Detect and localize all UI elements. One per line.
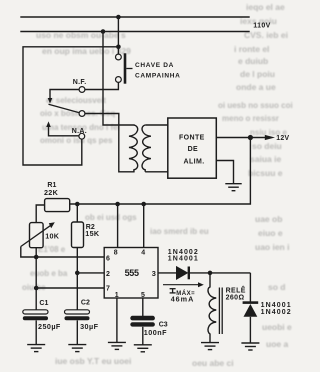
svg-text:so deiu: so deiu [252, 141, 282, 151]
svg-text:110V: 110V [253, 23, 271, 30]
resistor R1 body [45, 199, 70, 212]
transformer T1 primary coil [129, 125, 138, 172]
wire R1 left to potentiometer [36, 205, 44, 223]
junction dot pin2 node [75, 271, 80, 276]
label I MAX = 46mA [170, 289, 176, 293]
svg-text:meno o resissr: meno o resissr [222, 114, 279, 123]
ground symbol pin1 [108, 342, 126, 349]
wire pin3 to diode D1 [158, 272, 176, 274]
svg-text:260Ω: 260Ω [226, 295, 245, 302]
wire pin8 stub [117, 204, 119, 248]
arrow 12V output [250, 137, 266, 139]
svg-text:1N4001: 1N4001 [168, 255, 199, 262]
svg-text:C1: C1 [39, 300, 48, 307]
wire C3 to ground [142, 327, 144, 345]
ground symbol FONTE [225, 184, 241, 191]
wire line1 drop to bell switch [117, 17, 119, 54]
svg-text:de l poiu: de l poiu [240, 69, 275, 79]
wire R2 bottom to C2 [76, 248, 78, 311]
diode D2 triangle [244, 304, 258, 317]
relay core bars [218, 288, 220, 335]
svg-text:12V: 12V [276, 135, 289, 142]
svg-text:15K: 15K [85, 229, 100, 238]
wire R2 top stub [76, 204, 78, 222]
svg-text:uao ien i: uao ien i [255, 242, 289, 252]
junction dot 12V node [248, 135, 253, 140]
wire relay node to D2 [249, 273, 251, 302]
switch arm (relay contact) [49, 104, 80, 113]
capacitor C3 plates [130, 316, 155, 321]
svg-text:DE: DE [188, 146, 199, 153]
svg-text:CHAVE DA: CHAVE DA [135, 62, 174, 69]
ground symbol C3 [134, 345, 152, 352]
wire 110V line 3 (to N.A. contact) [23, 47, 118, 165]
junction dot line3 [116, 45, 121, 50]
wire pot bottom stub [35, 248, 37, 257]
wire pin7 line [36, 287, 104, 289]
wire 110V line 2 [21, 31, 249, 33]
wire pot wiper to pin6 rail [21, 247, 104, 258]
svg-text:3: 3 [152, 269, 156, 278]
FONTE DE ALIM box [168, 118, 217, 178]
svg-text:555: 555 [125, 268, 139, 278]
svg-text:1N4001: 1N4001 [261, 302, 292, 309]
svg-text:2: 2 [106, 271, 110, 278]
svg-text:8: 8 [114, 249, 118, 256]
svg-text:e duiub: e duiub [238, 56, 268, 66]
svg-text:30µF: 30µF [80, 322, 98, 331]
ground symbol D2 [241, 343, 259, 350]
svg-text:ALIM.: ALIM. [184, 159, 205, 166]
svg-text:oeu abe ci: oeu abe ci [192, 358, 234, 368]
wire pin4 stub [143, 204, 145, 248]
svg-text:so d: so d [268, 282, 285, 292]
svg-text:RELÊ: RELÊ [226, 286, 246, 295]
wire N.F. contact left stub [50, 90, 79, 99]
resistor R2 body [72, 222, 84, 248]
svg-text:22K: 22K [44, 188, 59, 197]
wire FONTE to ground [216, 161, 233, 184]
junction dot rail R2 [75, 202, 80, 207]
ground symbol C1 [27, 345, 45, 352]
svg-text:1N4002: 1N4002 [261, 309, 292, 316]
junction dot line1 [116, 15, 121, 20]
svg-text:ueobi e: ueobi e [262, 322, 292, 332]
wire pin1 to ground [116, 298, 118, 342]
contact circle N.F. [79, 87, 85, 93]
svg-text:er seleciousveit: er seleciousveit [46, 96, 106, 105]
svg-text:C2: C2 [81, 300, 90, 307]
wire N.A. stub [49, 126, 79, 136]
svg-text:6: 6 [106, 255, 110, 262]
diode D1 cathode bar [188, 267, 190, 280]
svg-text:i ronte el: i ronte el [234, 44, 269, 54]
svg-text:5: 5 [141, 292, 145, 299]
svg-text:oi uesb no ssuo coi: oi uesb no ssuo coi [218, 101, 293, 110]
potentiometer P1 body [30, 223, 44, 248]
contact circle common [79, 111, 85, 117]
ground symbol C2 [68, 345, 86, 352]
pushbutton chave da campainha: circles [116, 54, 122, 60]
svg-text:250µF: 250µF [38, 322, 61, 331]
svg-text:eiuo e: eiuo e [258, 228, 283, 238]
svg-text:46mA: 46mA [171, 295, 195, 304]
junction dot pot bottom [34, 255, 39, 260]
svg-text:uoe a: uoe a [266, 339, 288, 349]
svg-text:7: 7 [106, 286, 110, 293]
wire bell switch to N.F. contact [85, 82, 118, 89]
wire 110V line 1 [21, 16, 249, 18]
wire C1 to ground [35, 320, 37, 344]
svg-text:CVS. ieb ei: CVS. ieb ei [244, 30, 288, 40]
potentiometer arrow [21, 225, 52, 247]
junction dot C1 node [34, 286, 39, 291]
svg-text:N.A.: N.A. [72, 128, 87, 135]
diode D2 cathode bar [243, 301, 259, 304]
arrow I MAX [163, 284, 199, 286]
junction dot line2 [101, 29, 106, 34]
svg-text:FONTE: FONTE [179, 134, 205, 141]
arrow down at N.F. [48, 98, 53, 104]
junction dot rail pin4 [141, 202, 146, 207]
capacitor C1 top plate [23, 310, 48, 314]
junction dot relay node [208, 271, 213, 276]
svg-text:4: 4 [141, 249, 145, 256]
relay coil [208, 273, 216, 343]
wire pin5 to C3 [142, 298, 144, 317]
svg-text:iue osb Y.T eu uoei: iue osb Y.T eu uoei [55, 356, 131, 366]
svg-text:CAMPAINHA: CAMPAINHA [135, 72, 181, 79]
svg-text:ob ei usd ogs: ob ei usd ogs [85, 213, 137, 222]
wire pin6 node down to C1 node [35, 257, 37, 288]
transformer T1 secondary coil [142, 125, 151, 172]
svg-text:omoni o isu qs pes: omoni o isu qs pes [40, 136, 113, 145]
wire switch common to transformer primary bottom [85, 114, 134, 172]
svg-text:onde a ue: onde a ue [236, 82, 276, 92]
arrow up at N.A. [46, 121, 51, 127]
capacitor C1 bottom plate [23, 316, 48, 320]
svg-text:N.F.: N.F. [73, 79, 87, 86]
svg-text:bicsuu e: bicsuu e [248, 168, 283, 178]
wire D1 to relay node [189, 272, 251, 274]
contact circle N.A. [79, 133, 85, 139]
wire pin2 line [77, 272, 104, 274]
pushbutton tick to label [126, 68, 132, 70]
wire C2 to ground [76, 320, 78, 344]
wire FONTE output to 12V node [216, 137, 250, 139]
svg-text:ieqo el ae: ieqo el ae [246, 2, 285, 12]
junction dot rail pin8 [115, 202, 120, 207]
wire line2 drop to transformer primary [103, 32, 134, 126]
svg-text:100nF: 100nF [144, 328, 167, 337]
wire D2 to ground [249, 317, 251, 343]
wire secondary to FONTE box [145, 125, 168, 172]
diode D1 triangle [176, 266, 188, 280]
capacitor C2 top plate [65, 310, 90, 314]
svg-text:1: 1 [115, 292, 119, 299]
svg-text:iao smerd ib eu: iao smerd ib eu [150, 227, 209, 236]
svg-text:10K: 10K [45, 232, 60, 241]
wire +12V rail [70, 138, 251, 205]
wire C1 lead [35, 288, 37, 310]
pushbutton actuator bar [124, 53, 127, 83]
capacitor C2 bottom plate [65, 316, 90, 320]
ground symbol relay [201, 343, 219, 350]
IC 555 box [104, 248, 158, 299]
svg-text:uae ob: uae ob [255, 214, 282, 224]
svg-text:saiua ie: saiua ie [250, 154, 281, 164]
